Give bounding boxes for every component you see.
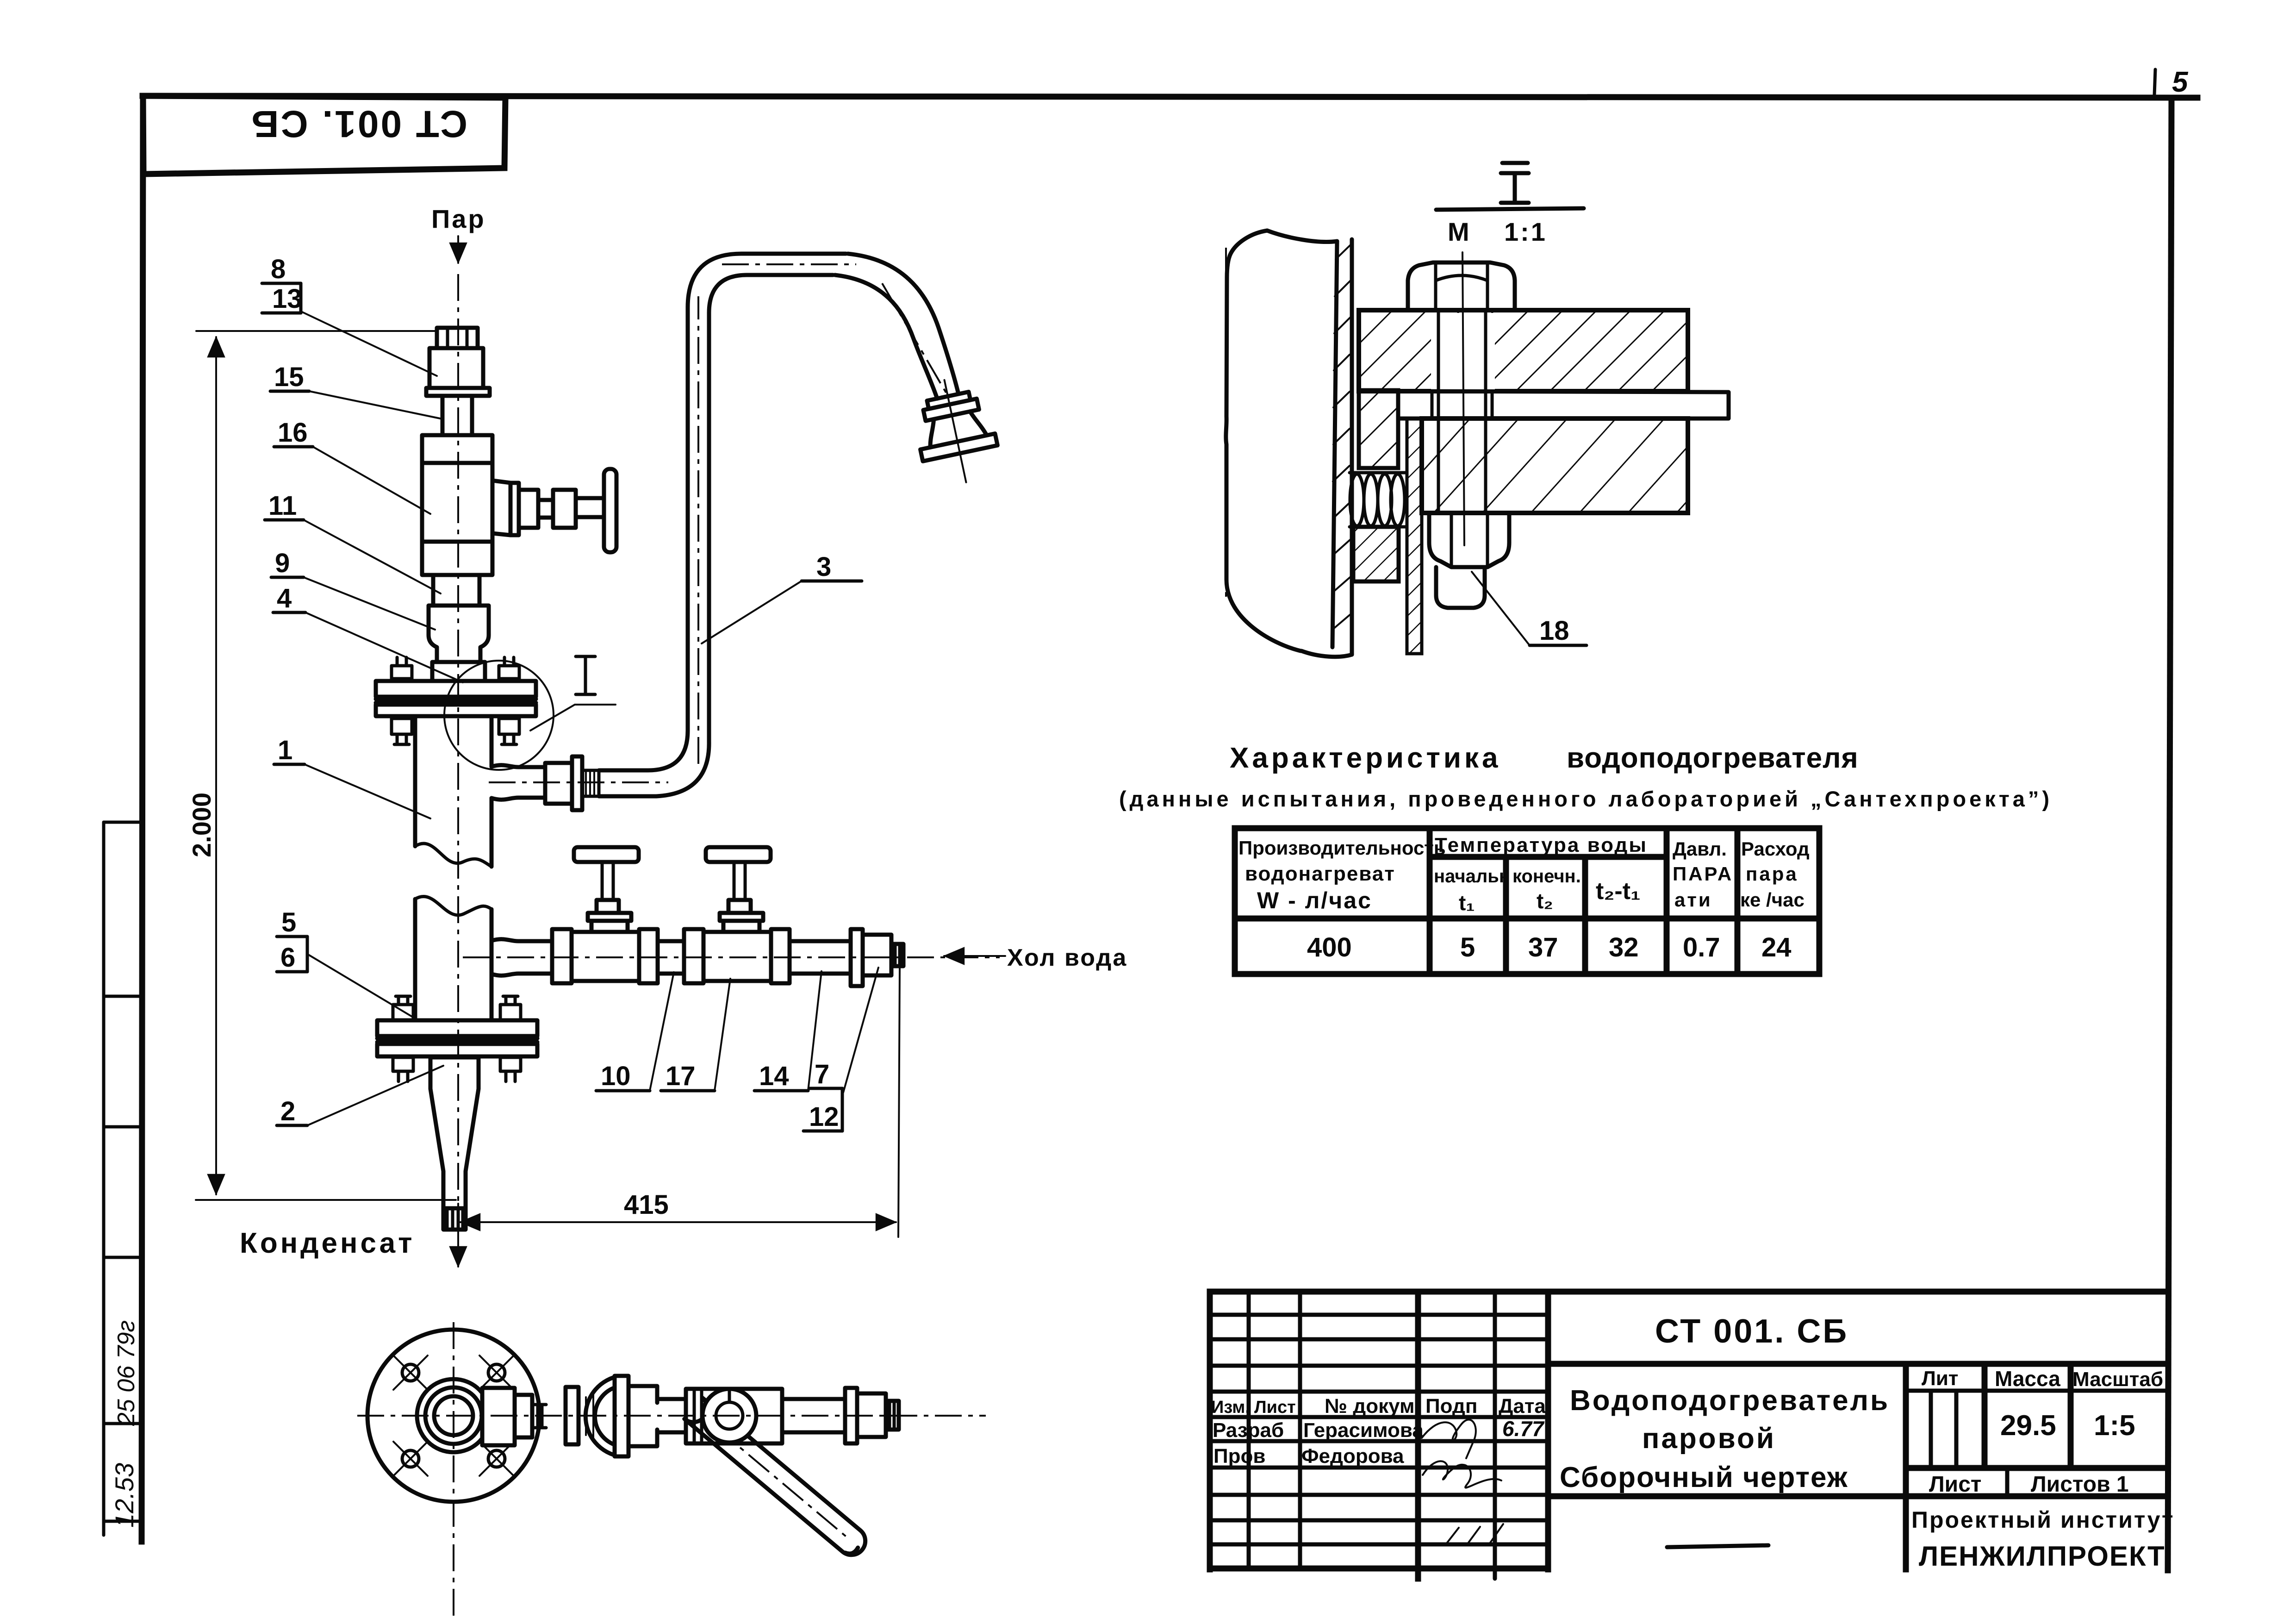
union nut xyxy=(545,763,572,804)
break wave lower xyxy=(415,897,492,915)
list divider xyxy=(2005,1468,2010,1496)
heavy divider xyxy=(1545,1292,1551,1569)
valve body xyxy=(422,463,492,542)
svg-text:25 06 79г: 25 06 79г xyxy=(113,1320,140,1426)
valve V1 stem xyxy=(602,864,613,900)
svg-text:№ докум.: № докум. xyxy=(1325,1395,1420,1418)
svg-text:(данные испытания, проведенног: (данные испытания, проведенного лаборато… xyxy=(1119,787,2053,811)
svg-text:Проектный институт: Проектный институт xyxy=(1911,1507,2174,1533)
svg-text:t₂: t₂ xyxy=(1537,889,1553,913)
CHARACTERISTICS TABLE xyxy=(1119,742,2053,974)
lit col divider xyxy=(1982,1364,1988,1468)
flange nut bottom-left xyxy=(392,718,412,734)
lower flange bottom plate xyxy=(377,1044,537,1056)
column line 1 xyxy=(1427,828,1433,974)
svg-text:12.53: 12.53 xyxy=(110,1463,139,1528)
valve V2 packing xyxy=(728,900,751,913)
valve V2 bonnet xyxy=(723,921,759,932)
svg-text:Сборочный чертеж: Сборочный чертеж xyxy=(1560,1462,1848,1493)
bolt shank lines xyxy=(1438,310,1486,513)
plan vertical centerline xyxy=(453,1322,454,1616)
wall bottom edge xyxy=(1301,651,1352,657)
bolt end xyxy=(1436,567,1485,608)
end hex cap item 12 xyxy=(891,944,903,966)
lower slab hatched xyxy=(1422,418,1688,513)
svg-text:Давл.: Давл. xyxy=(1673,838,1727,860)
wall section strip xyxy=(1332,239,1352,655)
plan handle lever xyxy=(684,1398,871,1561)
border top xyxy=(143,96,2197,98)
bracket top slab hatched xyxy=(1359,310,1688,391)
svg-text:Конденсат: Конденсат xyxy=(240,1227,415,1259)
stem pipe xyxy=(442,396,472,435)
clamp block hatched xyxy=(1353,527,1399,581)
flange disc xyxy=(367,1330,540,1502)
bolt hex head xyxy=(1408,262,1515,310)
spring xyxy=(1350,473,1407,527)
svg-text:5: 5 xyxy=(2172,66,2189,98)
stamp box (rotated doc code) xyxy=(143,96,505,174)
svg-text:Федорова: Федорова xyxy=(1301,1445,1404,1468)
pipe 3 top-left elbow xyxy=(688,254,741,307)
bolt hole channel top slab xyxy=(1431,313,1495,390)
valve outlet shoulder xyxy=(492,481,510,535)
section circle I xyxy=(444,661,554,770)
page number tick xyxy=(2154,69,2155,95)
lit massa masshtab header bottom xyxy=(1906,1389,2168,1393)
tank shell item 1 left wall xyxy=(413,718,417,846)
plan valve body inner lines xyxy=(694,1389,702,1443)
plan valve bonnet circle xyxy=(703,1389,756,1443)
svg-text:водоподогревателя: водоподогревателя xyxy=(1567,742,1859,774)
COLD WATER LINE xyxy=(463,847,1127,986)
hub ring outer xyxy=(417,1379,490,1452)
wall centerline xyxy=(1225,248,1227,597)
condensate cone item 2 xyxy=(430,1057,479,1208)
valve V1 packing xyxy=(597,900,619,913)
plan valve circle hub xyxy=(716,1402,743,1429)
gasket neck item 4 xyxy=(432,662,485,681)
dim 2000 top extension line xyxy=(196,330,435,332)
svg-text:32: 32 xyxy=(1609,932,1639,962)
plan outlet pipe xyxy=(782,1399,845,1432)
title block left edge xyxy=(1207,1292,1213,1569)
shower cone xyxy=(925,409,986,448)
svg-text:Водоподогреватель: Водоподогреватель xyxy=(1570,1385,1890,1417)
plan riser dome inner xyxy=(595,1386,620,1446)
title block outer top xyxy=(1210,1289,2168,1295)
svg-text:W - л/час: W - л/час xyxy=(1257,887,1372,913)
lower flange bolt left xyxy=(396,996,411,1005)
valve V2 right collar xyxy=(771,929,790,983)
svg-text:29.5: 29.5 xyxy=(2000,1410,2056,1442)
doc code cell divider xyxy=(1548,1361,2168,1367)
lower flange top plate xyxy=(377,1020,537,1036)
bolt shank in plate xyxy=(1432,391,1492,418)
valve V2 bonnet plate xyxy=(720,913,763,921)
break wave upper xyxy=(415,843,492,867)
bolt centerline xyxy=(1462,252,1464,545)
svg-text:400: 400 xyxy=(1307,932,1352,962)
riser centerline xyxy=(697,296,699,764)
valve V1 left collar xyxy=(552,929,572,983)
detail mark I glyph xyxy=(1501,173,1529,203)
dim 2000 line with arrows xyxy=(215,337,217,1194)
plan valve body xyxy=(686,1389,782,1443)
MAIN ASSEMBLY (front view) xyxy=(240,204,616,1267)
svg-text:водонагреват: водонагреват xyxy=(1245,862,1395,885)
svg-text:24: 24 xyxy=(1761,932,1792,962)
lower stem xyxy=(433,575,479,606)
branch centerline xyxy=(489,781,668,783)
svg-text:15: 15 xyxy=(274,362,304,392)
svg-text:ЛЕНЖИЛПРОЕКТ: ЛЕНЖИЛПРОЕКТ xyxy=(1919,1541,2165,1572)
plan tee step xyxy=(515,1395,532,1437)
plan neck xyxy=(532,1405,546,1428)
svg-text:Лист: Лист xyxy=(1929,1472,1981,1497)
end flange plate item 7 xyxy=(851,929,863,986)
shower head xyxy=(907,372,1003,490)
TITLE BLOCK xyxy=(1210,1292,2174,1579)
svg-text:Масштаб: Масштаб xyxy=(2072,1368,2163,1391)
valve bottom cap xyxy=(422,542,492,575)
svg-text:7: 7 xyxy=(815,1059,829,1089)
plan pipe to valve xyxy=(657,1399,686,1432)
stem horizontal xyxy=(576,498,604,517)
svg-text:начальн: начальн xyxy=(1434,866,1510,887)
branch stub from tank xyxy=(492,765,545,767)
border right xyxy=(2168,98,2172,1570)
table outer box xyxy=(1235,828,1819,974)
cold water centerline xyxy=(463,956,1000,958)
bolt lower nut xyxy=(1429,513,1509,567)
svg-text:1:5: 1:5 xyxy=(2094,1410,2135,1442)
pipe 3 riser xyxy=(686,307,690,731)
svg-text:Характеристика: Характеристика xyxy=(1230,742,1501,774)
svg-text:Герасимова: Герасимова xyxy=(1303,1419,1424,1442)
outlet pipe xyxy=(790,941,851,974)
union bell item 9 xyxy=(429,606,489,662)
svg-text:Расход: Расход xyxy=(1741,838,1810,860)
DIMENSIONS xyxy=(187,331,900,1237)
svg-text:Масса: Масса xyxy=(1995,1367,2060,1391)
svg-text:13: 13 xyxy=(272,284,302,314)
svg-text:16: 16 xyxy=(278,418,308,448)
svg-text:Лит: Лит xyxy=(1922,1367,1958,1390)
plan end hex xyxy=(886,1401,899,1430)
svg-text:10: 10 xyxy=(601,1061,631,1091)
dim 415 right extension xyxy=(898,968,900,1237)
valve V1 bonnet xyxy=(591,921,628,932)
svg-text:Разраб: Разраб xyxy=(1213,1419,1284,1442)
svg-text:пара: пара xyxy=(1746,863,1798,885)
svg-text:Производительность: Производительность xyxy=(1238,837,1446,859)
packing block xyxy=(553,490,576,528)
svg-text:5: 5 xyxy=(281,907,296,937)
signature 2 xyxy=(1423,1461,1501,1487)
svg-text:t₁: t₁ xyxy=(1459,891,1475,915)
svg-text:18: 18 xyxy=(1539,616,1569,646)
valve V2 handwheel tee xyxy=(706,847,771,862)
valve V1 bonnet plate xyxy=(588,913,631,921)
DETAIL I xyxy=(1226,163,1729,657)
svg-text:Температура воды: Температура воды xyxy=(1435,834,1648,856)
pipe 3 horizontal run xyxy=(599,768,648,773)
detail mark I overbar xyxy=(1502,161,1528,165)
column line 3 xyxy=(1582,857,1588,974)
svg-text:37: 37 xyxy=(1528,932,1558,962)
svg-text:3: 3 xyxy=(816,552,831,582)
section leader xyxy=(530,705,616,731)
header/data divider xyxy=(1235,916,1819,922)
plan union plate xyxy=(566,1387,579,1444)
svg-text:t₂-t₁: t₂-t₁ xyxy=(1596,878,1641,905)
handwheel edge view xyxy=(604,469,616,552)
connecting pipe xyxy=(658,941,684,974)
union flange ring xyxy=(572,756,582,810)
plan tee block xyxy=(482,1388,515,1445)
svg-text:Подп: Подп xyxy=(1425,1395,1477,1418)
flange nut bottom-right xyxy=(499,718,519,734)
pipe 3 top-right bend down to shower xyxy=(848,254,958,394)
svg-text:11: 11 xyxy=(268,491,297,521)
neck xyxy=(538,500,553,518)
bracket vertical leg hatched xyxy=(1359,390,1398,468)
dash mark xyxy=(1667,1545,1768,1547)
svg-text:6: 6 xyxy=(280,943,295,973)
lower flange bolt right xyxy=(503,996,518,1005)
svg-text:2.000: 2.000 xyxy=(187,793,216,857)
svg-text:Хол вода: Хол вода xyxy=(1007,944,1127,971)
valve V2 stem xyxy=(734,864,745,900)
svg-text:8: 8 xyxy=(271,254,286,284)
bolt hole channel lower slab xyxy=(1431,421,1495,510)
detail rule xyxy=(1436,208,1584,210)
steam arrow xyxy=(457,236,459,263)
plan fork upper xyxy=(628,1386,657,1446)
bolt hole NW xyxy=(393,1355,428,1390)
plan riser dome outer xyxy=(585,1376,620,1456)
values row bottom xyxy=(1906,1465,2168,1471)
svg-text:Изм.: Изм. xyxy=(1211,1398,1250,1417)
svg-text:М: М xyxy=(1448,217,1469,246)
tank shell right wall xyxy=(490,718,494,767)
valve U16 top cap xyxy=(422,435,492,463)
plan dome plate xyxy=(615,1376,628,1456)
svg-text:14: 14 xyxy=(759,1061,789,1091)
pipe 3 lower elbow xyxy=(648,731,688,770)
upper flange bottom plate xyxy=(376,705,536,716)
cold water arrow xyxy=(944,955,1005,957)
lower flange gasket lines xyxy=(377,1037,537,1041)
pipe 3 top run xyxy=(741,252,846,256)
leader 7-12 xyxy=(843,968,878,1093)
plan dome threads xyxy=(586,1392,593,1441)
dim 415 left extension xyxy=(457,1204,459,1230)
collar item 15 xyxy=(426,388,490,396)
upper flange gasket lines xyxy=(376,697,536,701)
lower flange nut right xyxy=(500,1057,521,1071)
svg-text:12: 12 xyxy=(809,1102,839,1132)
plan horizontal centerline xyxy=(357,1415,986,1417)
threaded stub xyxy=(582,770,599,796)
svg-text:конечн.: конечн. xyxy=(1512,866,1581,887)
valve V2 left collar xyxy=(684,929,703,983)
svg-text:0.7: 0.7 xyxy=(1683,932,1720,962)
shelf plate xyxy=(1398,391,1729,418)
gland cylinder item 13 xyxy=(429,348,483,388)
bonnet block xyxy=(519,490,538,528)
wall left outline xyxy=(1226,231,1300,651)
column line 5 xyxy=(1735,828,1741,974)
svg-text:ке /час: ке /час xyxy=(1740,889,1804,911)
slant pipe centerline xyxy=(882,283,946,393)
svg-text:Пров: Пров xyxy=(1213,1445,1265,1468)
shower collar upper xyxy=(927,392,971,409)
bore xyxy=(434,1396,473,1435)
valve V1 right collar xyxy=(639,929,658,983)
svg-text:17: 17 xyxy=(666,1061,696,1091)
shower collar ring xyxy=(923,399,979,421)
svg-text:СТ 001. СБ: СТ 001. СБ xyxy=(1655,1313,1848,1350)
svg-text:Пар: Пар xyxy=(431,204,486,233)
flange bolt top-left xyxy=(397,657,406,666)
signature 1 xyxy=(1422,1420,1476,1458)
upper flange top plate xyxy=(376,681,536,697)
valve V1 body xyxy=(572,932,639,981)
condensate arrow xyxy=(457,1230,459,1267)
bolt hole NE xyxy=(479,1355,514,1390)
main vertical centerline xyxy=(457,274,459,1226)
border left xyxy=(142,96,143,1542)
SHOWER PIPE xyxy=(489,254,1004,810)
svg-text:6.77: 6.77 xyxy=(1502,1417,1545,1441)
svg-text:2: 2 xyxy=(280,1096,295,1126)
list row bottom xyxy=(1548,1493,2168,1499)
left table horizontals xyxy=(1210,1313,1548,1317)
top run centerline xyxy=(722,263,856,265)
svg-text:СТ 001. СБ: СТ 001. СБ xyxy=(249,103,467,145)
left table verticals xyxy=(1247,1292,1251,1568)
left margin column xyxy=(102,822,106,1535)
hub ring inner xyxy=(425,1387,482,1444)
column line 4 xyxy=(1664,828,1670,974)
svg-text:Листов 1: Листов 1 xyxy=(2031,1472,2129,1497)
name/right column divider xyxy=(1903,1364,1909,1569)
svg-text:паровой: паровой xyxy=(1642,1423,1776,1455)
nut item 8 xyxy=(437,328,478,348)
section mark I near circle xyxy=(576,656,595,694)
shower axis centerline xyxy=(945,380,966,482)
svg-text:5: 5 xyxy=(1460,932,1475,962)
flange bolt top-right xyxy=(504,657,514,666)
svg-text:Лист: Лист xyxy=(1254,1398,1296,1417)
threaded tip xyxy=(443,1208,466,1230)
svg-text:Дата: Дата xyxy=(1499,1395,1546,1418)
dim 415 line with arrows xyxy=(460,1221,896,1223)
svg-text:415: 415 xyxy=(624,1190,669,1220)
svg-text:ПАРА: ПАРА xyxy=(1673,863,1733,885)
lower flange nut left xyxy=(393,1057,413,1071)
bottom squiggles xyxy=(1446,1524,1503,1545)
valve V1 handwheel tee xyxy=(574,847,639,862)
end union body xyxy=(863,935,891,975)
svg-text:ати: ати xyxy=(1674,889,1712,911)
dim 2000 bottom extension line xyxy=(196,1199,456,1201)
svg-text:9: 9 xyxy=(275,548,290,578)
plan end plate xyxy=(845,1388,857,1443)
svg-text:1:1: 1:1 xyxy=(1504,217,1547,246)
bracket long leg strip hatched xyxy=(1407,418,1422,654)
column line 2 xyxy=(1503,857,1509,974)
bolt hole SE xyxy=(479,1442,514,1476)
temp group divider xyxy=(1430,854,1667,860)
svg-text:4: 4 xyxy=(277,583,292,613)
lit sub dividers xyxy=(1929,1391,1933,1468)
wall top edge xyxy=(1267,231,1337,242)
shower face plate xyxy=(921,434,998,462)
CALLOUT LABELS xyxy=(262,254,878,1132)
outlet plate xyxy=(510,483,519,535)
inlet pipe stub xyxy=(492,939,552,941)
svg-text:1: 1 xyxy=(278,735,292,765)
valve V2 body xyxy=(703,932,771,981)
bolt hole SW xyxy=(393,1442,428,1476)
plan end union xyxy=(857,1393,886,1437)
BOTTOM PLAN VIEW xyxy=(357,1322,986,1616)
leader 8-13 xyxy=(302,312,437,376)
